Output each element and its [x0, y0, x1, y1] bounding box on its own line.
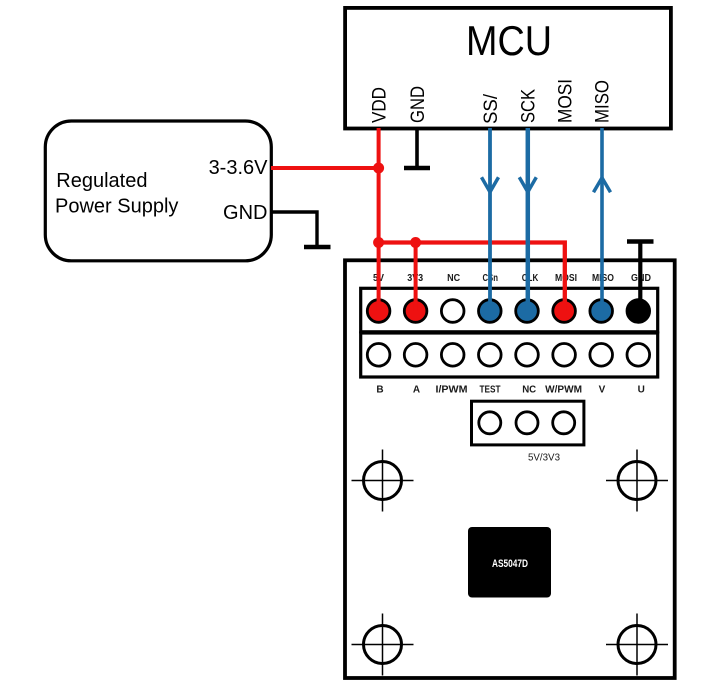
board outline (AS5047D adapter board) — [345, 260, 675, 678]
svg-text:V: V — [599, 385, 606, 396]
pin GND (board) — [627, 300, 650, 323]
svg-text:AS5047D: AS5047D — [492, 558, 528, 570]
pin W/PWM — [553, 344, 576, 367]
pin CLK — [516, 300, 539, 323]
MCU U1 — [345, 8, 671, 129]
wire VDD vertical (MCU VDD to 5V pin) — [377, 128, 381, 311]
ground (MCU) — [404, 166, 430, 171]
chip AS5047D — [468, 527, 551, 598]
pin GND (MCU) — [408, 86, 429, 123]
svg-text:SS/: SS/ — [481, 93, 502, 124]
pin 3V3 — [404, 300, 427, 323]
node VDD junction — [373, 163, 384, 174]
pin CSn — [479, 300, 502, 323]
mounting hole H2 — [606, 450, 668, 512]
svg-text:MISO: MISO — [593, 80, 614, 123]
svg-text:MCU: MCU — [466, 17, 552, 64]
pin B — [367, 344, 390, 367]
svg-text:TEST: TEST — [480, 385, 501, 396]
wire MISO to MISO — [600, 128, 604, 311]
pin SS/ (MCU) — [481, 93, 502, 124]
node bus junction B — [410, 237, 421, 248]
arrow down on SCK wire — [519, 177, 536, 192]
arrow down on SS/ wire — [482, 177, 499, 192]
header box row 2 — [361, 333, 658, 377]
pin A — [404, 344, 427, 367]
svg-text:5V/3V3: 5V/3V3 — [528, 452, 560, 464]
ground (PSU) — [304, 245, 331, 250]
svg-text:U: U — [638, 385, 645, 396]
pin SCK (MCU) — [519, 89, 540, 123]
pin MOSI (MCU) — [556, 79, 577, 123]
wire red bus to MOSI pin — [379, 243, 565, 312]
svg-text:Regulated: Regulated — [56, 170, 147, 192]
wire board GND stem — [638, 243, 642, 311]
wire SS/ to CSn — [488, 128, 492, 311]
svg-text:W/PWM: W/PWM — [545, 385, 582, 396]
svg-text:MOSI: MOSI — [556, 79, 577, 123]
pin J2-1 — [479, 412, 501, 434]
pin I/PWM — [441, 344, 464, 367]
arrow up on MISO wire — [594, 178, 611, 193]
pin MISO — [590, 300, 613, 323]
node bus junction A — [373, 237, 384, 248]
svg-text:GND: GND — [408, 86, 429, 123]
header J2 (5V/3V3 selector) — [472, 401, 584, 445]
svg-text:NC: NC — [447, 273, 460, 284]
svg-text:SCK: SCK — [519, 89, 540, 123]
svg-text:GND: GND — [223, 202, 267, 224]
ground (board GND pin, bar on top) — [627, 239, 654, 244]
power supply PS1 — [45, 121, 271, 261]
mounting hole H3 — [352, 614, 414, 676]
wire PSU GND — [271, 212, 317, 245]
pin VDD (MCU) — [370, 87, 391, 123]
svg-text:A: A — [413, 385, 420, 396]
wire red to 3V3 pin — [414, 243, 418, 312]
svg-text:NC: NC — [522, 385, 536, 396]
pin NC2 — [516, 344, 539, 367]
wire 3-3.6V supply to VDD net — [271, 166, 379, 170]
pin MOSI — [553, 300, 576, 323]
pin 5V — [367, 300, 390, 323]
svg-text:Power Supply: Power Supply — [55, 196, 178, 218]
pin TEST — [479, 344, 502, 367]
svg-text:I/PWM: I/PWM — [436, 385, 468, 396]
mounting hole H1 — [352, 450, 414, 512]
mounting hole H4 — [606, 614, 668, 676]
svg-text:VDD: VDD — [370, 87, 391, 123]
wire SCK to CLK — [526, 128, 531, 311]
pin V — [590, 344, 613, 367]
svg-text:B: B — [376, 385, 383, 396]
pin J2-3 — [553, 412, 575, 434]
pin U — [627, 344, 650, 367]
pin MISO (MCU) — [593, 80, 614, 123]
header box row 1 — [361, 288, 658, 332]
pin NC — [441, 300, 464, 323]
wire MCU GND stub — [415, 128, 419, 166]
svg-text:CLK: CLK — [522, 273, 539, 284]
pin J2-2 — [516, 412, 538, 434]
svg-text:3-3.6V: 3-3.6V — [209, 157, 269, 179]
